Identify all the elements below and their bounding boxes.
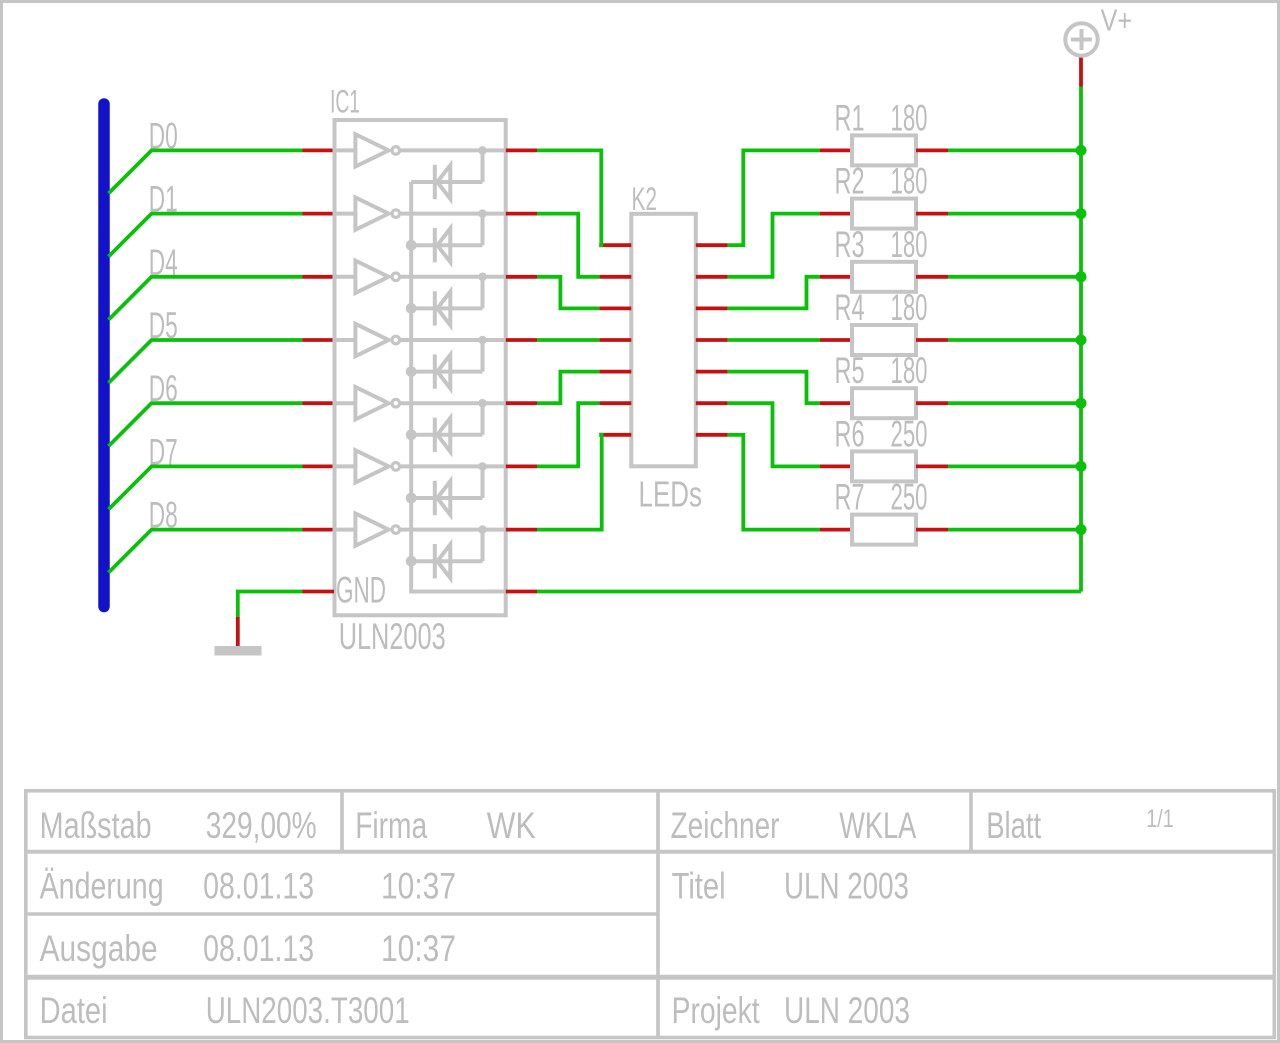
junction dot output ch6	[478, 462, 487, 471]
wire R4 to V+ rail	[948, 338, 1081, 342]
pin stub IC1 output 6	[506, 464, 537, 468]
wire IC1 out5 to K2 pin5	[537, 372, 599, 404]
junction dot V+ rail	[1076, 398, 1087, 409]
svg-text:08.01.13: 08.01.13	[203, 927, 314, 969]
resistor R3	[820, 275, 852, 279]
svg-text:D0: D0	[149, 115, 178, 156]
wire (pin) to ground symbol	[236, 617, 240, 646]
junction dot V+ rail	[1076, 524, 1087, 535]
svg-text:R3: R3	[835, 224, 865, 265]
wire R3 to V+ rail	[948, 275, 1081, 279]
junction dot COM rail	[406, 366, 417, 377]
wire net D7 from bus to IC1 input	[109, 466, 303, 509]
svg-text:IC1: IC1	[330, 84, 360, 120]
junction dot COM rail	[406, 303, 417, 314]
svg-text:180: 180	[891, 287, 928, 328]
pin stub IC1 input 4	[303, 338, 335, 342]
wire IC1 out1 to K2 pin1	[537, 150, 601, 245]
inverter channel 6 of IC1	[335, 464, 356, 468]
pin stub IC1 COM	[506, 590, 537, 594]
svg-text:D6: D6	[149, 368, 178, 409]
title block line h3	[26, 975, 1275, 980]
pin stub K2 right 4	[696, 338, 728, 342]
junction dot V+ rail	[1076, 271, 1087, 282]
pin stub K2 left 3	[599, 306, 631, 310]
wire K2 pin3 to R3	[728, 277, 820, 309]
pin stub IC1 output 1	[506, 148, 537, 152]
pin stub IC1 input 3	[303, 275, 335, 279]
junction dot output ch4	[478, 336, 487, 345]
junction dot COM rail	[406, 556, 417, 567]
V+ supply symbol	[1065, 23, 1097, 55]
svg-text:V+: V+	[1101, 3, 1133, 38]
pin stub K2 right 3	[696, 306, 728, 310]
junction dot output ch5	[478, 399, 487, 408]
junction dot COM rail	[406, 240, 417, 251]
pin stub K2 left 7	[599, 433, 631, 437]
wire IC1 out3 to K2 pin3	[537, 277, 599, 309]
op-amp / driver IC U1 = IC1 ULN2003 box	[335, 120, 506, 615]
wire net D5 from bus to IC1 input	[109, 340, 303, 383]
svg-text:K2: K2	[632, 181, 658, 217]
inverter channel 2 of IC1	[335, 212, 356, 216]
svg-text:250: 250	[891, 477, 928, 518]
pin stub IC1 output 4	[506, 338, 537, 342]
wire net D1 from bus to IC1 input	[109, 214, 303, 257]
junction dot COM rail	[406, 493, 417, 504]
pin stub IC1 input 2	[303, 212, 335, 216]
svg-text:WKLA: WKLA	[839, 804, 916, 846]
svg-text:R6: R6	[835, 413, 865, 454]
svg-text:ULN2003: ULN2003	[339, 616, 446, 657]
pin stub K2 left 4	[599, 338, 631, 342]
freewheel diode D5 inside IC1	[411, 433, 482, 437]
pin stub K2 right 7	[696, 433, 728, 437]
wire V+ vertical rail	[1079, 87, 1083, 592]
pin stub IC1 output 7	[506, 528, 537, 532]
freewheel diode D6 inside IC1	[411, 496, 482, 500]
pin stub IC1 input 1	[303, 148, 335, 152]
svg-text:WK: WK	[487, 804, 536, 846]
wire R5 to V+ rail	[948, 401, 1081, 405]
ground symbol	[215, 646, 262, 656]
inverter channel 4 of IC1	[335, 338, 356, 342]
title block line v2	[969, 791, 973, 852]
svg-text:Titel: Titel	[672, 865, 726, 907]
svg-text:Blatt: Blatt	[986, 804, 1041, 846]
bus B1 (data bus)	[98, 104, 110, 607]
svg-text:180: 180	[891, 224, 928, 265]
svg-text:Ausgabe: Ausgabe	[40, 927, 158, 969]
wire R7 to V+ rail	[948, 528, 1081, 532]
svg-text:1/1: 1/1	[1146, 806, 1174, 833]
title block line h1	[26, 850, 1275, 854]
wire net D8 from bus to IC1 input	[109, 530, 303, 573]
wire IC1 out7 to K2 pin7	[537, 435, 602, 530]
wire K2 pin1 to R1	[728, 150, 820, 245]
inverter channel 1 of IC1	[335, 148, 356, 152]
junction dot V+ rail	[1076, 208, 1087, 219]
svg-text:Projekt: Projekt	[672, 989, 760, 1031]
resistor R4	[820, 338, 852, 342]
pin stub IC1 output 2	[506, 212, 537, 216]
svg-text:LEDs: LEDs	[639, 474, 703, 515]
wire GND net	[238, 592, 303, 618]
svg-text:D7: D7	[149, 431, 178, 472]
resistor R5	[820, 401, 852, 405]
inverter channel 3 of IC1	[335, 275, 356, 279]
wire IC1 out2 to K2 pin2	[537, 214, 599, 277]
wire K2 pin2 to R2	[728, 214, 820, 277]
svg-text:Zeichner: Zeichner	[671, 804, 780, 846]
freewheel diode D3 inside IC1	[411, 306, 482, 310]
pin stub IC1 input 6	[303, 464, 335, 468]
freewheel diode D4 inside IC1	[411, 370, 482, 374]
svg-text:180: 180	[891, 97, 928, 138]
svg-text:10:37: 10:37	[381, 865, 456, 907]
wire net D6 from bus to IC1 input	[109, 403, 303, 446]
resistor R7	[820, 528, 852, 532]
pin stub K2 left 5	[599, 370, 631, 374]
COM rail of IC1 diodes	[411, 182, 506, 592]
wire net D0 from bus to IC1 input	[109, 150, 303, 193]
wire IC1 out4 to K2 pin4	[537, 338, 599, 342]
pin stub IC1 input 7	[303, 528, 335, 532]
freewheel diode D2 inside IC1	[411, 243, 482, 247]
svg-text:ULN 2003: ULN 2003	[784, 865, 909, 907]
connector K2 box	[631, 214, 696, 466]
freewheel diode D7 inside IC1	[411, 559, 482, 563]
title block line v-center	[656, 791, 660, 1038]
pin stub IC1 GND	[303, 590, 335, 594]
svg-text:329,00%: 329,00%	[206, 804, 317, 846]
junction dot COM rail	[406, 429, 417, 440]
svg-text:Änderung: Änderung	[40, 865, 164, 907]
pin stub IC1 input 5	[303, 401, 335, 405]
svg-text:180: 180	[891, 350, 928, 391]
inverter channel 7 of IC1	[335, 528, 356, 532]
title block line v1	[340, 791, 344, 852]
title block line h2	[26, 912, 658, 916]
freewheel diode D1 inside IC1	[411, 180, 482, 184]
junction dot V+ rail	[1076, 335, 1087, 346]
svg-text:D8: D8	[149, 495, 178, 536]
resistor R2	[820, 212, 852, 216]
svg-text:D5: D5	[149, 305, 178, 346]
svg-text:ULN 2003: ULN 2003	[784, 989, 910, 1031]
wire R6 to V+ rail	[948, 464, 1081, 468]
svg-text:250: 250	[891, 413, 928, 454]
svg-text:R2: R2	[835, 161, 865, 202]
wire IC1 out6 to K2 pin6	[537, 403, 599, 466]
wire R1 to V+ rail	[948, 148, 1081, 152]
junction dot output ch2	[478, 209, 487, 218]
svg-text:180: 180	[891, 161, 928, 202]
svg-text:R5: R5	[835, 350, 865, 391]
svg-text:R7: R7	[835, 477, 865, 518]
wire K2 pin6 to R6	[728, 403, 820, 466]
svg-text:R4: R4	[835, 287, 865, 328]
junction dot V+ rail	[1076, 145, 1087, 156]
resistor R6	[820, 464, 852, 468]
svg-text:D1: D1	[149, 179, 178, 220]
svg-text:Datei: Datei	[40, 989, 108, 1031]
svg-text:D4: D4	[149, 242, 178, 283]
svg-text:ULN2003.T3001: ULN2003.T3001	[206, 989, 410, 1031]
pin stub V+ supply	[1079, 57, 1083, 87]
pin stub K2 left 1	[599, 243, 631, 247]
inverter channel 5 of IC1	[335, 401, 356, 405]
pin stub K2 right 1	[696, 243, 728, 247]
junction dot V+ rail	[1076, 461, 1087, 472]
junction dot output ch1	[478, 146, 487, 155]
junction dot output ch7	[478, 525, 487, 534]
pin stub K2 left 2	[599, 275, 631, 279]
title block frame	[26, 791, 1275, 1038]
wire R2 to V+ rail	[948, 212, 1081, 216]
svg-text:R1: R1	[835, 97, 865, 138]
pin stub IC1 output 3	[506, 275, 537, 279]
pin stub IC1 output 5	[506, 401, 537, 405]
junction dot output ch3	[478, 273, 487, 282]
wire COM net to V+ rail	[537, 590, 1081, 594]
svg-text:GND: GND	[336, 570, 386, 611]
pin stub K2 right 5	[696, 370, 728, 374]
wire K2 pin4 to R4	[728, 338, 820, 342]
pin stub K2 right 6	[696, 401, 728, 405]
pin stub K2 right 2	[696, 275, 728, 279]
svg-text:Maßstab: Maßstab	[40, 804, 152, 846]
resistor R1	[820, 148, 852, 152]
svg-text:08.01.13: 08.01.13	[203, 865, 314, 907]
wire K2 pin7 to R7	[728, 435, 820, 530]
wire net D4 from bus to IC1 input	[109, 277, 303, 320]
svg-text:Firma: Firma	[355, 804, 427, 846]
wire K2 pin5 to R5	[728, 372, 820, 404]
pin stub K2 left 6	[599, 401, 631, 405]
svg-text:10:37: 10:37	[381, 927, 456, 969]
